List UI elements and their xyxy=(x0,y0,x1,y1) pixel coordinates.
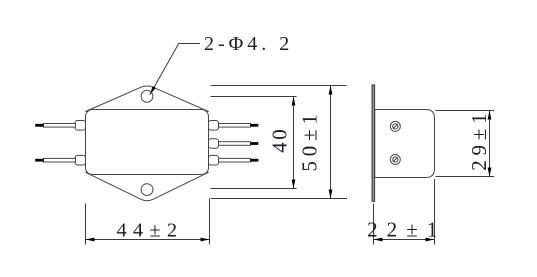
filter body xyxy=(86,110,209,175)
screw head 1 inner xyxy=(393,124,398,129)
right pin 1 wire xyxy=(219,124,251,128)
screw head 2 inner xyxy=(393,157,398,162)
dim 44 dimension line xyxy=(86,239,210,241)
left pin 2 wire break tick xyxy=(35,159,43,162)
dim 50 dimension line xyxy=(330,86,332,199)
screw head 1 outer xyxy=(390,121,400,131)
dim 22 dimension line xyxy=(374,239,435,241)
right pin 2 wire xyxy=(219,142,251,146)
dim 29 top extension line xyxy=(436,110,495,112)
dim 40 bottom extension line xyxy=(211,188,297,190)
right pin 3 wire break tick xyxy=(251,159,259,162)
bottom mounting hole xyxy=(141,184,153,196)
dim 40 top extension line xyxy=(211,96,297,98)
left pin 2 wire xyxy=(44,158,76,162)
screw head 1 slot xyxy=(393,124,398,129)
top mounting flange xyxy=(86,86,209,112)
dim 44 left arrow xyxy=(86,238,95,242)
dim 29 bottom arrow xyxy=(488,168,492,177)
left pin 1 terminal stub xyxy=(75,121,86,131)
screw head 2 slot xyxy=(393,157,398,162)
dim 40 bottom arrow xyxy=(292,180,296,189)
right pin 2 wire break tick xyxy=(251,142,259,145)
dim 50 bottom extension line xyxy=(211,198,348,200)
left pin 1 wire break tick xyxy=(35,124,43,127)
top mounting hole xyxy=(141,90,153,102)
right pin 1 wire break tick xyxy=(251,124,259,127)
dim 50 top arrow xyxy=(329,86,333,95)
svg-text:29±1: 29±1 xyxy=(467,109,491,171)
right pin 3 terminal stub xyxy=(209,155,219,165)
dim 44 right arrow xyxy=(201,238,210,242)
dim 22 right extension line xyxy=(434,179,436,245)
left pin 2 terminal stub xyxy=(75,155,86,165)
leader line for hole callout xyxy=(150,44,200,95)
dim 40 top arrow xyxy=(292,97,296,106)
dim 40 dimension line xyxy=(293,97,295,189)
left pin 1 wire xyxy=(44,124,76,128)
dim 22 left extension line (below plate) xyxy=(373,204,375,245)
svg-text:22±1: 22±1 xyxy=(367,218,446,242)
dim 44 right extension line xyxy=(209,199,211,245)
leader arrowhead xyxy=(150,86,156,95)
dim 22 right arrow xyxy=(426,238,435,242)
dim 44 left extension line xyxy=(85,204,87,245)
svg-text:40: 40 xyxy=(267,127,291,153)
right pin 2 terminal stub xyxy=(209,139,219,149)
dim 50 top extension line xyxy=(211,85,347,87)
svg-text:44±2: 44±2 xyxy=(116,220,183,242)
side view mounting plate (edge-on) xyxy=(372,85,375,201)
screw head 2 outer xyxy=(390,155,400,165)
right pin 1 terminal stub xyxy=(209,121,219,131)
dim 29 bottom extension line xyxy=(436,176,495,178)
right pin 3 wire xyxy=(219,158,251,162)
dim 29 top arrow xyxy=(488,111,492,120)
svg-text:2-Φ4. 2: 2-Φ4. 2 xyxy=(204,33,293,55)
svg-text:50±1: 50±1 xyxy=(298,109,322,171)
side view bracket body xyxy=(375,110,435,178)
dim 22 left arrow xyxy=(374,238,383,242)
dim 50 bottom arrow xyxy=(329,190,333,199)
dim 29 dimension line xyxy=(489,111,491,177)
bottom mounting flange xyxy=(86,172,209,200)
